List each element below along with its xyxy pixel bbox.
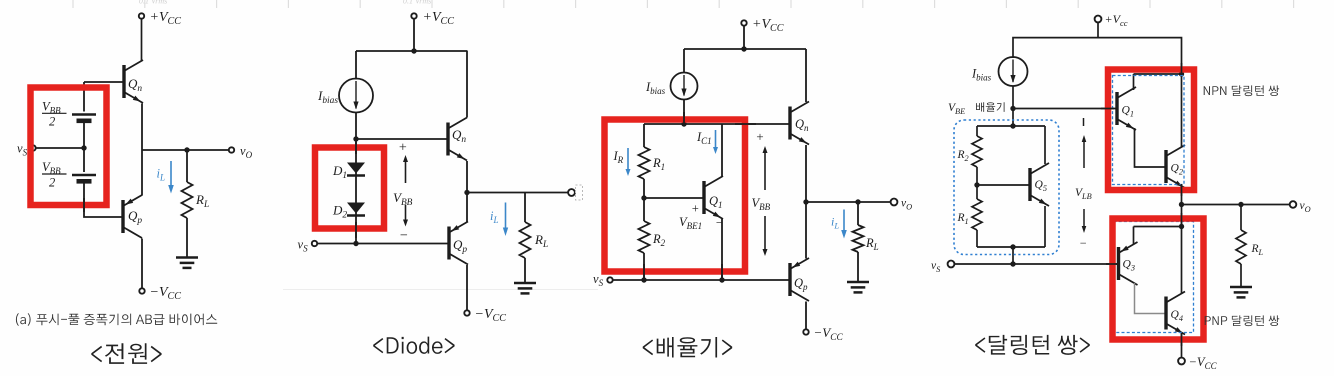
node RL junction (circuit 4) bbox=[1238, 202, 1243, 207]
wire crossing red box bottom (circuit 1) bbox=[83, 198, 85, 212]
wire R1 bottom lead (circuit 4) bbox=[976, 230, 978, 247]
node base junction (circuit 3) bbox=[641, 195, 646, 200]
terminal vS (circuit 1) bbox=[30, 145, 35, 150]
wire base line Q5 bbox=[977, 184, 1030, 186]
svg-text:2: 2 bbox=[49, 115, 55, 129]
blue dotted box (VBE multiplier) bbox=[954, 120, 1059, 255]
wire NPN collector rail bbox=[1134, 73, 1182, 75]
current arrow IR (circuit 3) bbox=[627, 148, 629, 171]
wire RL bottom (circuit 2) bbox=[524, 258, 526, 283]
wire output line (circuit 3) bbox=[806, 201, 891, 203]
node multiplier bottom (circuit 4) bbox=[1010, 244, 1015, 249]
terminal vO (circuit 3) bbox=[891, 199, 898, 206]
caption (a) push-pull AB bias bbox=[16, 313, 217, 326]
svg-text:2: 2 bbox=[49, 176, 55, 190]
resistor R2 (circuit 4) bbox=[972, 136, 982, 167]
wire multiplier to vS line bbox=[1012, 247, 1014, 264]
wire diode chain bbox=[355, 139, 357, 244]
current source Ibias (circuit 2) bbox=[339, 79, 373, 113]
wire RL top bbox=[186, 150, 188, 182]
node output (circuit 2) bbox=[464, 190, 469, 195]
wire Qn collector riser (circuit 3) bbox=[805, 49, 807, 102]
wire RL bottom bbox=[186, 218, 188, 258]
wire Q4 emitter to -Vcc bbox=[1181, 333, 1183, 358]
blue dashed box (NPN pair) bbox=[1113, 76, 1185, 185]
node output (circuit 4) bbox=[1179, 202, 1184, 207]
wire R1 to base node bbox=[643, 179, 645, 198]
red highlight box (diode pair) bbox=[315, 148, 384, 229]
wire R2 lead crossing red box bottom (circuit 3) bbox=[643, 264, 645, 278]
wire vS lead (circuit 2) bbox=[318, 243, 356, 245]
wire Ibias to diode node bbox=[355, 113, 357, 140]
transistor Qn (circuit 3) bbox=[790, 102, 809, 145]
terminal -VCC (circuit 2) bbox=[464, 310, 469, 315]
wire top rail (circuit 2) bbox=[356, 50, 468, 52]
node R2 bottom (circuit 3) bbox=[641, 277, 646, 282]
svg-text:+: + bbox=[398, 141, 407, 156]
resistor R1 (circuit 3) bbox=[639, 147, 650, 179]
wire Q1 emitter crossing red box bottom (circuit 3) bbox=[721, 264, 723, 278]
terminal -VCC (circuit 1) bbox=[139, 288, 144, 293]
blue dashed box (PNP pair) bbox=[1114, 222, 1194, 333]
wire Q1 emitter riser bbox=[721, 219, 723, 280]
wire crossing NPN box top (circuit 4) bbox=[1181, 63, 1183, 75]
battery B2 (VBB/2 lower) bbox=[72, 174, 96, 176]
terminal +VCC (circuit 2) bbox=[411, 13, 416, 18]
transistor Q3 (circuit 4) bbox=[1119, 242, 1138, 285]
terminal vS (circuit 4) bbox=[948, 261, 955, 268]
wire crossing PNP box left (circuit 4) bbox=[1106, 263, 1119, 265]
wire diode node to Qn base bbox=[356, 138, 448, 140]
arrow VBB down (circuit 2) bbox=[405, 205, 407, 221]
ground (circuit 2) bbox=[514, 282, 536, 285]
wire crossing red box top (circuit 2) bbox=[355, 141, 357, 154]
red highlight box (battery pair) bbox=[31, 88, 107, 206]
current arrow iL (circuit 3) bbox=[843, 210, 845, 233]
wire Qp collector to -Vcc bbox=[466, 265, 468, 310]
svg-text:+: + bbox=[756, 129, 765, 144]
svg-text:0.1 Vrms: 0.1 Vrms bbox=[139, 0, 167, 6]
wire Q1 collector riser bbox=[721, 124, 723, 177]
resistor RL (circuit 1) bbox=[182, 182, 193, 218]
terminal vO (circuit 4) bbox=[1290, 201, 1297, 208]
wire crossing PNP box bottom (circuit 4) bbox=[1181, 333, 1183, 346]
resistor R1 (circuit 4) bbox=[972, 199, 982, 230]
resistor R2 (circuit 3) bbox=[639, 221, 650, 253]
wire crossing NPN box left (circuit 4) bbox=[1101, 108, 1114, 110]
svg-text:−: − bbox=[1079, 236, 1087, 250]
wire PNP emitter rail bbox=[1134, 226, 1182, 228]
wire Ibias to bias node bbox=[1012, 86, 1014, 109]
transistor Qp (circuit 3) bbox=[790, 258, 809, 301]
node vS junction (circuit 2) bbox=[353, 241, 358, 246]
wire Ibias to multiplier bbox=[683, 99, 685, 124]
wire output to Qp emitter bbox=[141, 150, 143, 196]
node top rail (circuit 2) bbox=[411, 48, 416, 53]
transistor Qp (circuit 1) bbox=[123, 195, 142, 238]
transistor Q2 (circuit 4) bbox=[1166, 145, 1185, 188]
transistor Q1 (circuit 3) bbox=[704, 176, 723, 219]
wire Qp emitter riser (circuit 3) bbox=[805, 202, 807, 259]
wire RL top (circuit 2) bbox=[524, 193, 526, 223]
wire multiplier bottom rail bbox=[977, 246, 1045, 248]
node NPN collector junction bbox=[1179, 71, 1184, 76]
arrow VLB down bbox=[1083, 209, 1085, 228]
wire Q2 collector riser bbox=[1181, 74, 1183, 147]
caption <multiplier> bbox=[643, 337, 733, 358]
terminal vS (circuit 2) bbox=[312, 241, 317, 246]
wire R2 top lead bbox=[643, 198, 645, 221]
resistor RL (circuit 2) bbox=[520, 222, 531, 258]
wire base rail crossing red box right (circuit 3) bbox=[735, 123, 756, 125]
wire vS line (circuit 4) bbox=[955, 263, 1119, 265]
wire crossing red box bottom (circuit 2) bbox=[355, 222, 357, 238]
wire multiplier top rail bbox=[644, 123, 790, 125]
wire Vcc to Qn collector bbox=[141, 20, 143, 62]
arrow VBB up (circuit 3) bbox=[764, 151, 766, 190]
node mid junction (circuit 4) bbox=[974, 182, 979, 187]
wire R1 top lead bbox=[643, 124, 645, 147]
wire battery2 to Qp base bbox=[84, 184, 123, 218]
wire Vcc drop (circuit 4) bbox=[1097, 22, 1099, 38]
terminal +VCC (circuit 3) bbox=[741, 20, 746, 25]
wire rail to Ibias bbox=[355, 51, 357, 80]
arrow VBB up (circuit 2) bbox=[405, 160, 407, 183]
wire R2 bottom lead bbox=[643, 253, 645, 280]
wire RL bottom (circuit 3) bbox=[857, 252, 859, 282]
wire vS line to Qp base bbox=[356, 243, 449, 245]
wire bias line to Q1 base bbox=[1013, 108, 1117, 110]
arrow VLB up bbox=[1083, 140, 1085, 168]
caption <darlington pair> bbox=[975, 335, 1090, 355]
wire vS lead bbox=[37, 147, 85, 149]
placeholder box vO (circuit 2) bbox=[576, 185, 583, 200]
transistor Qn (circuit 1) bbox=[124, 60, 143, 103]
current source Ibias (circuit 3) bbox=[671, 73, 698, 100]
red highlight box (PNP pair) bbox=[1113, 219, 1204, 340]
terminal -VCC (circuit 3) bbox=[803, 329, 808, 334]
wire Q5 emitter riser bbox=[1044, 206, 1046, 247]
arrow VBB down (circuit 3) bbox=[764, 216, 766, 251]
wire R2 bottom lead (circuit 4) bbox=[976, 167, 978, 185]
transistor Qp (circuit 2) bbox=[449, 222, 468, 265]
terminal vO (circuit 2) bbox=[568, 189, 575, 196]
wire RL bottom (circuit 4) bbox=[1240, 264, 1242, 287]
terminal vS (circuit 3) bbox=[607, 277, 612, 282]
wire output line (circuit 4) bbox=[1182, 204, 1290, 206]
current source Ibias (circuit 4) bbox=[999, 57, 1028, 86]
svg-text:−: − bbox=[399, 229, 408, 244]
wire crossing NPN box bottom (circuit 4) bbox=[1181, 184, 1183, 196]
wire Q1 emitter to Q2 base bbox=[1135, 128, 1167, 167]
ground (circuit 3) bbox=[847, 281, 869, 284]
wire bias node into multiplier bbox=[1012, 109, 1014, 127]
red highlight box (NPN pair) bbox=[1108, 70, 1194, 191]
wire Q3 emitter riser bbox=[1133, 227, 1135, 245]
wire Q5 collector riser bbox=[1044, 126, 1046, 164]
node diode top (circuit 2) bbox=[353, 136, 358, 141]
terminal +VCC (circuit 1) bbox=[139, 13, 144, 18]
wire base line Q1 bbox=[644, 197, 704, 199]
wire R1 top lead (circuit 4) bbox=[976, 185, 978, 199]
wire Q3 collector to Q4 base bbox=[1135, 283, 1167, 314]
node top rail (circuit 3) bbox=[741, 46, 746, 51]
caption <power> bbox=[91, 343, 161, 364]
node output left (circuit 3) bbox=[803, 199, 808, 204]
diode D2 bbox=[347, 203, 365, 214]
wire Qp collector to -Vcc bbox=[141, 239, 143, 288]
label NPN darlington pair bbox=[1204, 85, 1279, 96]
transistor Q5 (circuit 4) bbox=[1030, 163, 1049, 206]
node bias junction (circuit 4) bbox=[1010, 106, 1015, 111]
wire R2 top lead (circuit 4) bbox=[976, 126, 978, 136]
wire output into PNP box bbox=[1181, 205, 1183, 227]
wire Vcc drop (circuit 2) bbox=[413, 20, 415, 52]
transistor Qn (circuit 2) bbox=[448, 118, 467, 161]
node multiplier top (circuit 4) bbox=[1010, 123, 1015, 128]
wire Qp collector to -Vcc (circuit 3) bbox=[805, 302, 807, 329]
node RL junction (circuit 1) bbox=[184, 147, 189, 152]
wire Qn emitter to output node bbox=[141, 104, 143, 151]
node vS junction (circuit 1) bbox=[81, 145, 86, 150]
wire Q2 emitter to output bbox=[1181, 187, 1183, 205]
transistor Q4 (circuit 4) bbox=[1166, 292, 1185, 335]
battery B1 (VBB/2 upper) bbox=[72, 113, 96, 115]
node Q1 emitter bottom (circuit 3) bbox=[719, 277, 724, 282]
wire vS line (circuit 3) bbox=[614, 279, 791, 281]
wire top rail (circuit 4) bbox=[1013, 38, 1182, 74]
wire RL top (circuit 3) bbox=[857, 202, 859, 225]
wire crossing red box top (circuit 3) bbox=[683, 112, 685, 126]
terminal vO (circuit 1) bbox=[229, 147, 234, 152]
wire Qn emitter to output bbox=[466, 161, 468, 193]
wire Qn emitter to output (circuit 3) bbox=[805, 145, 807, 202]
wire Q4 collector riser bbox=[1181, 227, 1183, 294]
resistor RL (circuit 3) bbox=[853, 225, 864, 252]
node multiplier top bbox=[681, 121, 686, 126]
node PNP emitter junction bbox=[1179, 224, 1184, 229]
svg-text:+: + bbox=[691, 202, 699, 216]
wire battery1 to node bbox=[83, 123, 85, 148]
wire crossing PNP box top (circuit 4) bbox=[1181, 213, 1183, 224]
wire rail to Ibias (circuit 3) bbox=[683, 49, 685, 73]
wire Q1 collector riser bbox=[1133, 74, 1135, 90]
diode D1 bbox=[347, 163, 365, 174]
svg-text:−: − bbox=[715, 216, 723, 230]
wire Qn base bbox=[84, 81, 124, 83]
wire RL top (circuit 4) bbox=[1240, 205, 1242, 231]
terminal +Vcc (circuit 4) bbox=[1095, 16, 1102, 23]
node vS junction (circuit 4) bbox=[1010, 261, 1015, 266]
svg-text:0.1 Vrms: 0.1 Vrms bbox=[403, 0, 431, 6]
wire output line (circuit 1) bbox=[142, 149, 229, 151]
label plus tick (VLB top) bbox=[1083, 118, 1085, 126]
node RL junction (circuit 3) bbox=[855, 199, 860, 204]
red highlight box (multiplier) bbox=[605, 120, 746, 272]
ground (circuit 1) bbox=[176, 256, 198, 259]
wire node to battery2 bbox=[83, 148, 85, 172]
ground (circuit 4) bbox=[1230, 286, 1252, 289]
wire base chain down bbox=[83, 82, 85, 112]
transistor Q1 (circuit 4) bbox=[1117, 87, 1136, 130]
current arrow IC1 (circuit 3) bbox=[715, 130, 717, 149]
wire output line (circuit 2) bbox=[467, 192, 568, 194]
wire Qp emitter riser bbox=[466, 193, 468, 223]
wire multiplier top rail (circuit 4) bbox=[977, 125, 1045, 127]
label PNP darlington pair bbox=[1205, 315, 1280, 326]
current arrow iL (circuit 1) bbox=[170, 161, 172, 187]
wire Qn collector riser bbox=[466, 51, 468, 118]
resistor RL (circuit 4) bbox=[1236, 230, 1246, 264]
current arrow iL (circuit 2) bbox=[505, 203, 507, 230]
caption <Diode> bbox=[373, 337, 454, 354]
wire top rail (circuit 3) bbox=[684, 48, 806, 50]
terminal -VCC (circuit 4) bbox=[1178, 358, 1185, 365]
wire Vcc drop (circuit 3) bbox=[743, 27, 745, 50]
